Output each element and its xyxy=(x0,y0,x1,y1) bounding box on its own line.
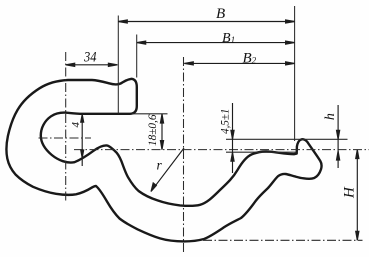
svg-text:18±0,6: 18±0,6 xyxy=(147,114,159,146)
svg-text:h: h xyxy=(323,113,338,120)
svg-text:H: H xyxy=(342,186,358,199)
svg-text:4,5±1: 4,5±1 xyxy=(219,109,231,134)
svg-text:В: В xyxy=(216,6,225,22)
svg-text:r: r xyxy=(157,157,163,172)
svg-text:4: 4 xyxy=(70,121,82,127)
svg-text:В2: В2 xyxy=(243,50,257,66)
svg-text:34: 34 xyxy=(83,50,97,66)
svg-text:В1: В1 xyxy=(222,31,235,46)
